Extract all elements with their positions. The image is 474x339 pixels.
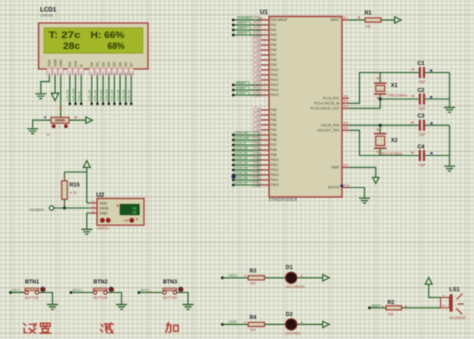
svg-text:X1: X1 <box>391 83 398 89</box>
wire BTN3 to ground <box>177 293 188 305</box>
svg-text:LCD_D6: LCD_D6 <box>122 89 126 101</box>
svg-text:LCD_D2: LCD_D2 <box>99 89 103 101</box>
svg-text:PC13_RTC: PC13_RTC <box>323 97 340 101</box>
svg-text:DS18B20: DS18B20 <box>239 16 253 20</box>
svg-text:LCD_D3: LCD_D3 <box>105 89 109 101</box>
wire terminal LED1 to R3 <box>221 276 224 279</box>
svg-text:100: 100 <box>250 328 256 332</box>
svg-text:16: 16 <box>257 48 261 52</box>
potentiometer RV1 body <box>51 117 69 123</box>
svg-text:PB4: PB4 <box>271 128 277 132</box>
wire PC14 to X1 top rail <box>349 73 419 104</box>
LCD LCD1 body LM016L <box>39 23 148 69</box>
svg-text:PA1: PA1 <box>271 23 277 27</box>
wire ground to potentiometer RV1 <box>33 120 51 128</box>
wire BTN1 to ground <box>39 293 53 305</box>
svg-text:VEE: VEE <box>59 59 63 67</box>
wire U2 GND to ground <box>87 213 90 229</box>
crystal X1 8MHz <box>379 73 381 83</box>
svg-text:PB14: PB14 <box>271 178 279 182</box>
svg-text:PA4: PA4 <box>271 38 277 42</box>
svg-text:DHT11: DHT11 <box>97 227 109 231</box>
svg-text:PB0: PB0 <box>271 108 277 112</box>
node junction R15 DATA <box>63 207 66 210</box>
svg-text:C2: C2 <box>417 88 424 94</box>
svg-text:PC14-OSC32_IN: PC14-OSC32_IN <box>314 102 340 106</box>
svg-text:88: 88 <box>133 211 137 215</box>
svg-text:PB5: PB5 <box>271 133 277 137</box>
wire D2 to power arrow <box>297 323 323 325</box>
svg-text:39: 39 <box>257 123 261 127</box>
svg-text:LCD_D1: LCD_D1 <box>236 151 248 155</box>
svg-text:33: 33 <box>257 78 261 82</box>
wire terminal KEY1 to PA1 <box>232 24 235 27</box>
svg-text:FREQ=8MHz: FREQ=8MHz <box>388 94 407 98</box>
svg-text:LED1: LED1 <box>229 274 237 278</box>
potentiometer pin dots and marker 1 <box>52 124 56 128</box>
svg-text:VBAT: VBAT <box>331 166 339 170</box>
svg-text:R4: R4 <box>250 315 257 321</box>
svg-text:18: 18 <box>257 108 261 112</box>
svg-text:PB1: PB1 <box>271 113 277 117</box>
wire PD1 to X2 bottom rail <box>349 130 419 155</box>
svg-text:LCD_D4: LCD_D4 <box>110 89 114 101</box>
power terminal right arrow D1 <box>323 275 330 281</box>
svg-text:BTN3: BTN3 <box>163 280 177 286</box>
svg-text:D0: D0 <box>90 62 94 67</box>
svg-text:20pF: 20pF <box>418 80 425 84</box>
svg-text:2: 2 <box>347 94 349 98</box>
wire potentiometer to power arrow <box>69 119 86 121</box>
power terminal down arrow VBAT <box>373 177 379 183</box>
svg-text:VSS: VSS <box>48 59 52 67</box>
svg-text:PA2: PA2 <box>271 28 277 32</box>
svg-text:13: 13 <box>124 71 128 75</box>
wire C1 to right rail <box>425 72 449 74</box>
svg-text:LCD_D1: LCD_D1 <box>93 89 97 101</box>
svg-text:LED1: LED1 <box>238 86 246 90</box>
svg-text:PB15: PB15 <box>271 183 279 187</box>
node junction X1 bottom <box>379 98 382 101</box>
svg-text:PA7: PA7 <box>271 53 277 57</box>
svg-text:BUTTON: BUTTON <box>163 296 177 300</box>
svg-text:BTN1: BTN1 <box>25 280 39 286</box>
svg-text:PA8: PA8 <box>271 58 277 62</box>
svg-text:1: 1 <box>59 125 61 129</box>
svg-text:10: 10 <box>107 71 111 75</box>
svg-text:U1: U1 <box>260 9 268 16</box>
svg-text:15: 15 <box>257 43 261 47</box>
svg-text:LED-GREEN: LED-GREEN <box>286 285 306 289</box>
chinese label jia (plus) <box>166 323 178 333</box>
svg-text:D1: D1 <box>96 62 100 67</box>
wire C4 to right rail and ground <box>425 155 449 157</box>
wire R3 to D1 <box>265 277 286 279</box>
svg-text:D5: D5 <box>118 62 122 67</box>
node junction X2 top <box>379 124 382 127</box>
svg-text:BOOT0: BOOT0 <box>328 186 339 190</box>
wire power to R15 and U2 VDD <box>86 167 88 203</box>
svg-text:4: 4 <box>347 104 349 108</box>
svg-text:X2: X2 <box>391 138 398 144</box>
svg-text:LCD_RS: LCD_RS <box>66 89 70 101</box>
svg-text:BEEP: BEEP <box>372 304 382 308</box>
svg-text:20: 20 <box>257 118 261 122</box>
svg-text:PB12: PB12 <box>271 168 279 172</box>
svg-text:LED2: LED2 <box>229 320 237 324</box>
wires LCD RS RW E D0-D7 with net labels <box>69 75 71 103</box>
power terminal up arrow for DHT11 VDD <box>83 161 90 168</box>
svg-text:R3: R3 <box>250 269 257 275</box>
svg-text:C4: C4 <box>417 144 425 150</box>
svg-text:12pF: 12pF <box>418 133 425 137</box>
wire terminal LED2 to R4 <box>221 323 224 326</box>
power terminal right arrow NRST <box>395 17 402 23</box>
svg-text:5: 5 <box>347 121 349 125</box>
svg-text:10: 10 <box>260 16 264 20</box>
wire BOOT0 to ground <box>349 188 365 199</box>
svg-text:BEEP: BEEP <box>238 81 246 85</box>
svg-text:T: 27c: T: 27c <box>49 30 81 40</box>
wire terminal KEY2 to PA2 <box>232 29 235 32</box>
svg-text:U2: U2 <box>96 192 104 199</box>
wire terminal KEY3 to PA3 <box>232 34 235 37</box>
svg-text:LCD_D4: LCD_D4 <box>236 166 248 170</box>
svg-text:FREQ=32768Hz: FREQ=32768Hz <box>379 152 403 156</box>
svg-text:28c: 28c <box>63 41 80 51</box>
svg-text:68%: 68% <box>108 41 125 51</box>
power terminal up arrow for LS1 <box>425 277 432 284</box>
U1 left pins PA0-PA15 <box>261 19 269 21</box>
svg-text:KEY2: KEY2 <box>239 26 247 30</box>
svg-text:40: 40 <box>257 128 261 132</box>
chinese label she zhi (set) <box>24 323 51 333</box>
svg-text:LCD_RS: LCD_RS <box>236 131 248 135</box>
svg-text:LM016L: LM016L <box>40 14 54 18</box>
svg-text:LCD_D6: LCD_D6 <box>236 176 248 180</box>
svg-text:RS: RS <box>68 61 72 67</box>
svg-text:PA3: PA3 <box>271 33 277 37</box>
ground for DHT11 <box>81 229 92 234</box>
wire terminal KEY3 to BTN3 <box>138 291 141 294</box>
svg-text:PA13: PA13 <box>271 83 279 87</box>
power terminal right arrow <box>86 117 93 123</box>
svg-text:12: 12 <box>118 71 122 75</box>
wire C3 to right rail <box>425 124 449 126</box>
svg-text:100: 100 <box>388 312 394 316</box>
svg-text:PA9: PA9 <box>271 63 277 67</box>
wire LCD VEE down to potentiometer wiper <box>60 75 62 117</box>
ground for BTN1 <box>47 305 58 310</box>
svg-text:PA6: PA6 <box>271 48 277 52</box>
wire R4 to D2 <box>265 323 286 325</box>
svg-text:4.7K: 4.7K <box>70 191 78 195</box>
svg-text:31: 31 <box>257 68 261 72</box>
wire terminal LED1 to PA14 <box>232 89 235 92</box>
svg-text:12pF: 12pF <box>418 163 425 167</box>
svg-text:PA12: PA12 <box>271 78 279 82</box>
svg-text:10k: 10k <box>365 25 371 29</box>
svg-text:LCD_D5: LCD_D5 <box>236 171 248 175</box>
wire terminal KEY2 to BTN2 <box>70 291 73 294</box>
ground for BTN3 <box>183 305 194 310</box>
svg-text:GND: GND <box>100 211 108 215</box>
ground for BTN2 <box>116 305 127 310</box>
svg-text:PB7: PB7 <box>271 143 277 147</box>
chinese label jian (minus) <box>101 323 113 333</box>
wire R2 to LS1 <box>402 307 441 309</box>
svg-text:DS18B20: DS18B20 <box>29 208 44 212</box>
svg-text:LED2: LED2 <box>238 91 246 95</box>
svg-text:PB10: PB10 <box>271 158 279 162</box>
svg-text:1k: 1k <box>47 133 51 137</box>
terminal DS18B20 node <box>49 206 53 210</box>
U1 left pins PB0-PB15 <box>261 109 269 111</box>
wire NRST to R1 <box>349 19 365 21</box>
ground for BOOT0 <box>359 198 370 203</box>
svg-text:VDD: VDD <box>100 201 108 205</box>
wire terminal KEY1 to BTN1 <box>9 291 12 294</box>
svg-text:PB3: PB3 <box>271 123 277 127</box>
power terminal down arrow VDD <box>51 93 58 100</box>
svg-text:KEY1: KEY1 <box>12 289 21 293</box>
svg-text:29: 29 <box>257 58 261 62</box>
svg-text:STM32F103C8: STM32F103C8 <box>269 197 298 202</box>
svg-text:LCD_D5: LCD_D5 <box>116 89 120 101</box>
junction dot on LCD_D6 wire <box>231 174 235 178</box>
svg-text:VDD: VDD <box>53 59 57 67</box>
svg-text:1: 1 <box>347 163 349 167</box>
svg-text:NRST: NRST <box>331 18 340 22</box>
svg-text:D4: D4 <box>113 62 117 67</box>
svg-text:BTN2: BTN2 <box>94 280 108 286</box>
svg-text:OSCIN_PD0: OSCIN_PD0 <box>321 124 340 128</box>
wire PC15 to X1 bottom rail <box>349 99 419 108</box>
svg-text:KEY1: KEY1 <box>239 21 247 25</box>
wire PD0 to X2 top rail <box>349 124 419 126</box>
wire terminal BEEP to R2 <box>368 306 371 309</box>
svg-text:LCD_D7: LCD_D7 <box>236 181 248 185</box>
svg-text:LCD_D3: LCD_D3 <box>236 161 248 165</box>
svg-text:PA10: PA10 <box>271 68 279 72</box>
svg-text:C1: C1 <box>417 61 424 67</box>
svg-text:KEY3: KEY3 <box>141 289 150 293</box>
svg-text:PA5: PA5 <box>271 43 277 47</box>
wire DATA DS18B20 to U2 <box>54 207 90 209</box>
wire D1 to power arrow <box>297 277 323 279</box>
svg-text:LCD_D7: LCD_D7 <box>127 89 131 101</box>
crystal X2 32768Hz <box>379 125 381 133</box>
svg-text:BUTTON: BUTTON <box>25 296 39 300</box>
svg-text:LCD1: LCD1 <box>40 7 57 14</box>
svg-text:7: 7 <box>347 16 349 20</box>
svg-text:R15: R15 <box>70 183 80 189</box>
svg-text:KEY2: KEY2 <box>73 289 82 293</box>
ground for X2 caps <box>444 166 455 171</box>
wire terminal LED2 to PA15 <box>232 94 235 97</box>
wire terminal BEEP to PA13 <box>232 84 235 87</box>
svg-text:C3: C3 <box>417 114 424 120</box>
svg-text:D2: D2 <box>286 312 293 318</box>
svg-text:LCD_RW: LCD_RW <box>71 88 75 101</box>
wire terminal DS18B20 to PA0 <box>232 19 235 22</box>
svg-text:6: 6 <box>347 126 349 130</box>
ground for potentiometer <box>27 129 38 134</box>
svg-text:17: 17 <box>257 53 261 57</box>
DHT11 indicator dots <box>100 218 105 223</box>
svg-text:PA14: PA14 <box>271 88 279 92</box>
svg-text:PA11: PA11 <box>271 73 279 77</box>
wire C2 to right rail and ground <box>425 98 449 100</box>
U1 right pin stubs <box>342 19 349 21</box>
wire LCD VDD to power arrow <box>54 75 56 92</box>
svg-text:PB2: PB2 <box>271 118 277 122</box>
svg-text:PC15-OSC32_OUT: PC15-OSC32_OUT <box>311 107 340 111</box>
svg-text:D1: D1 <box>286 265 293 271</box>
svg-text:LED-RED: LED-RED <box>286 332 301 336</box>
svg-text:100: 100 <box>250 281 256 285</box>
svg-text:H: 66%: H: 66% <box>91 30 125 40</box>
svg-text:DATA: DATA <box>100 206 109 210</box>
svg-text:LCD_D2: LCD_D2 <box>236 156 248 160</box>
svg-text:PB9: PB9 <box>271 153 277 157</box>
svg-text:D2: D2 <box>101 62 105 67</box>
svg-text:32: 32 <box>257 73 261 77</box>
ground for X1 caps <box>444 108 455 113</box>
svg-text:SOUNDER: SOUNDER <box>449 316 466 320</box>
svg-text:OSCOUT_PD1: OSCOUT_PD1 <box>317 129 340 133</box>
svg-text:LCD_RW: LCD_RW <box>236 136 249 140</box>
svg-text:PA0-WKUP: PA0-WKUP <box>271 18 289 22</box>
LCD pin number boxes 1-14 <box>47 68 52 75</box>
svg-text:14: 14 <box>257 38 261 42</box>
svg-text:BUTTON: BUTTON <box>94 296 108 300</box>
wire power to LS1 top <box>429 284 441 297</box>
svg-text:PB8: PB8 <box>271 148 277 152</box>
svg-text:LCD_E: LCD_E <box>77 92 81 102</box>
svg-text:3: 3 <box>347 99 349 103</box>
svg-text:D6: D6 <box>124 62 128 67</box>
svg-text:R1: R1 <box>365 10 372 16</box>
svg-text:PB6: PB6 <box>271 138 277 142</box>
power terminal right arrow D2 <box>323 321 330 327</box>
svg-text:44: 44 <box>347 183 351 187</box>
svg-text:14: 14 <box>130 71 134 75</box>
wire VBAT to power down arrow <box>349 167 376 177</box>
svg-text:%RH: %RH <box>123 219 130 223</box>
svg-text:19: 19 <box>257 113 261 117</box>
svg-text:30: 30 <box>257 63 261 67</box>
wires LCD nets to PB5-PB15 <box>232 134 235 137</box>
svg-text:RW: RW <box>74 60 78 66</box>
svg-text:PB11: PB11 <box>271 163 279 167</box>
svg-text:LCD_D0: LCD_D0 <box>236 146 248 150</box>
svg-text:LCD_E: LCD_E <box>236 141 246 145</box>
svg-text:PB13: PB13 <box>271 173 279 177</box>
wire BTN2 to ground <box>107 293 121 305</box>
ground for LCD VSS <box>35 94 46 99</box>
svg-text:D7: D7 <box>130 62 134 67</box>
wire LCD VSS to ground <box>41 75 50 93</box>
svg-text:11: 11 <box>113 71 116 75</box>
svg-text:PA15: PA15 <box>271 93 279 97</box>
svg-text:D3: D3 <box>107 62 111 67</box>
svg-text:KEY3: KEY3 <box>239 31 247 35</box>
svg-text:LS1: LS1 <box>449 287 459 293</box>
resistor R15 4.7K <box>64 172 66 181</box>
wire R1 to power arrow <box>381 19 395 21</box>
svg-text:LCD_D0: LCD_D0 <box>88 89 92 101</box>
svg-text:20pF: 20pF <box>418 106 425 110</box>
